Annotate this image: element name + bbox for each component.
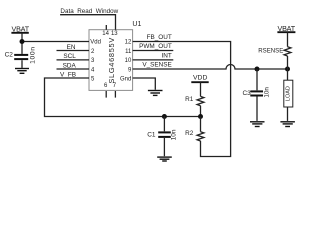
pin 6 stub xyxy=(105,91,107,98)
svg-text:100n: 100n xyxy=(29,46,36,64)
wire RSENSE to V_SENSE node xyxy=(287,56,289,69)
ground at U1 Gnd pin xyxy=(148,91,163,96)
wire node to R2 xyxy=(200,117,202,132)
ground below LOAD xyxy=(280,122,295,127)
supply VBAT left bar xyxy=(11,32,28,34)
wire Gnd pin to ground xyxy=(133,78,156,90)
wire VBAT stem to junction and C2 xyxy=(21,33,23,54)
svg-text:FB_OUT: FB_OUT xyxy=(147,34,172,41)
wire VBAT to RSENSE xyxy=(287,32,289,47)
wire Data_Read_Window to pin 13 xyxy=(60,15,115,30)
wire C3 to ground xyxy=(256,97,258,121)
svg-text:SDA: SDA xyxy=(63,62,77,69)
supply VDD bar xyxy=(191,81,208,83)
svg-text:RSENSE: RSENSE xyxy=(258,47,283,54)
wire node to LOAD xyxy=(287,69,289,80)
svg-text:R1: R1 xyxy=(185,96,194,103)
svg-text:SLG46855V: SLG46855V xyxy=(107,37,116,84)
svg-text:10n: 10n xyxy=(171,129,178,140)
wire VDD to R1 xyxy=(200,82,202,96)
ground below C3 xyxy=(250,122,265,127)
wire C3 top xyxy=(256,69,258,90)
svg-text:U1: U1 xyxy=(132,21,141,28)
resistor R1 zigzag xyxy=(197,96,204,105)
wire INT stub xyxy=(133,59,174,61)
node junction V_SENSE/RSENSE/LOAD xyxy=(285,67,290,72)
IC U1 body xyxy=(89,30,133,91)
svg-text:C2: C2 xyxy=(5,52,14,59)
svg-text:INT: INT xyxy=(162,52,172,59)
load LOAD box xyxy=(284,80,293,107)
wire C1 to ground xyxy=(163,138,165,156)
resistor RSENSE zigzag xyxy=(284,47,291,56)
pin 7 stub xyxy=(114,91,116,98)
wire PWM_OUT stub xyxy=(133,50,174,52)
ground below C2 xyxy=(15,69,29,74)
svg-text:VDD: VDD xyxy=(193,75,207,82)
svg-text:13: 13 xyxy=(111,31,118,37)
wire FB_OUT from pin 12 down to R2 bottom xyxy=(133,42,231,157)
wire LOAD to ground xyxy=(287,107,289,121)
svg-text:10: 10 xyxy=(125,58,132,64)
wire EN to pin 2 xyxy=(57,50,90,52)
svg-text:14: 14 xyxy=(102,31,109,37)
svg-text:LOAD: LOAD xyxy=(286,86,292,101)
svg-text:R2: R2 xyxy=(185,130,194,137)
svg-text:Vdd: Vdd xyxy=(90,40,101,46)
wire SDA to pin 4 xyxy=(57,68,90,70)
svg-text:SCL: SCL xyxy=(63,53,76,60)
capacitor C2 plates xyxy=(14,54,28,56)
wire V_SENSE with hop over FB_OUT xyxy=(133,65,288,70)
capacitor C3 plates xyxy=(250,90,263,92)
svg-text:V_SENSE: V_SENSE xyxy=(142,62,171,69)
wire R1 to feedback node xyxy=(200,106,202,117)
node junction C1/R1/R2 feedback xyxy=(198,114,203,119)
ground below C1 xyxy=(157,157,172,161)
wire VBAT to U1 Vdd pin1 xyxy=(22,41,89,43)
svg-text:C3: C3 xyxy=(242,90,251,97)
node junction C1 on V_FB net xyxy=(162,114,167,119)
svg-text:12: 12 xyxy=(125,40,132,46)
svg-text:Gnd: Gnd xyxy=(120,77,131,83)
wire SCL to pin 3 xyxy=(57,59,90,61)
wire C2 to ground xyxy=(21,60,23,68)
supply VBAT right bar xyxy=(277,31,295,33)
capacitor C1 plates xyxy=(158,131,171,133)
svg-text:10n: 10n xyxy=(263,87,270,98)
svg-text:C1: C1 xyxy=(147,132,156,139)
svg-text:11: 11 xyxy=(125,49,132,55)
pin 14 stub xyxy=(105,25,107,30)
svg-text:PWM_OUT: PWM_OUT xyxy=(139,43,172,50)
wire V_FB pin 5 routing down and right xyxy=(45,78,201,117)
node junction VBAT/C2 xyxy=(20,39,25,44)
wire C1 top xyxy=(163,117,165,132)
resistor R2 zigzag xyxy=(197,132,204,141)
node junction V_SENSE/C3 xyxy=(255,67,260,72)
